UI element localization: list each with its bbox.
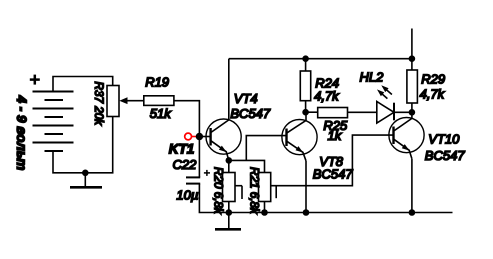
svg-text:R21 6,8k: R21 6,8k	[247, 167, 260, 215]
junction battery minus node	[82, 170, 89, 177]
capacitor C22	[186, 177, 200, 183]
wire R24 top lead	[305, 59, 307, 71]
potentiometer R37 wiper arrow	[119, 97, 144, 104]
battery GB1	[33, 92, 74, 152]
resistor R21 trimmer tap bar	[275, 186, 277, 199]
svg-text:4,7k: 4,7k	[314, 88, 340, 103]
svg-text:51k: 51k	[150, 106, 172, 121]
potentiometer R37 body	[107, 86, 119, 117]
svg-text:1k: 1k	[328, 128, 343, 143]
wire VT8 emitter down to rail	[305, 161, 307, 213]
svg-text:R20 6,8k: R20 6,8k	[211, 167, 224, 215]
svg-text:4,7k: 4,7k	[420, 86, 446, 101]
transistor VT4	[206, 119, 241, 160]
wire VT4 emitter node to R21 top	[229, 160, 265, 172]
wire R37 bottom to battery minus	[53, 117, 113, 173]
svg-text:R37 20k: R37 20k	[92, 82, 105, 127]
LED HL2 emission arrows	[377, 85, 392, 98]
wire KT1 to VT4 base	[199, 136, 210, 138]
wire VT4 collector to top rail	[228, 59, 230, 120]
svg-text:BC547: BC547	[230, 106, 271, 121]
resistor R19 body	[144, 96, 174, 106]
wire KT1 down to C22	[198, 137, 200, 178]
junction top rail / R29	[409, 55, 416, 62]
capacitor C22 polarity plus	[204, 170, 210, 176]
wire R20 bottom to rail	[228, 202, 230, 213]
wire node to R25 left	[306, 111, 318, 113]
junction R21 / ground rail	[261, 209, 268, 216]
transistor VT8	[282, 120, 317, 161]
svg-text:R19: R19	[145, 75, 169, 90]
junction KT1 node	[196, 133, 203, 140]
resistor R20 trimmer tap	[235, 186, 242, 199]
wire VT4 emitter node to R20 top	[228, 160, 230, 172]
svg-text:HL2: HL2	[360, 70, 385, 85]
svg-text:4 - 9 вольт: 4 - 9 вольт	[14, 95, 29, 171]
wire R19 right to KT1 junction	[174, 101, 200, 137]
power stub top right	[411, 29, 413, 59]
junction top rail / R24	[302, 55, 309, 62]
resistor R20 body	[223, 173, 236, 202]
resistor R25 body	[318, 108, 348, 118]
ground symbol (battery)	[70, 173, 102, 188]
wire C22 bottom to ground rail	[199, 184, 452, 213]
junction LED cathode / R29 / VT10 collector	[409, 109, 416, 116]
junction R20 / ground rail	[226, 209, 233, 216]
resistor R29 body	[407, 70, 418, 103]
wire R29 bottom lead	[411, 103, 413, 112]
resistor R21 body	[259, 173, 271, 202]
junction VT10 emitter / ground rail	[409, 209, 416, 216]
transistor VT10	[389, 118, 424, 159]
ground symbol (rail)	[215, 213, 241, 230]
wire VT10 collector up to node	[411, 112, 413, 118]
wire R29 top lead	[411, 59, 413, 70]
wire VT10 emitter down to rail	[411, 159, 413, 213]
wire top rail	[229, 58, 412, 60]
svg-text:VT4: VT4	[234, 91, 258, 106]
svg-text:R29: R29	[421, 72, 445, 87]
wire R24 bottom lead	[305, 101, 307, 113]
svg-text:VT10: VT10	[428, 131, 460, 146]
junction R24/R25/VT8 collector	[302, 109, 309, 116]
svg-text:C22: C22	[173, 157, 198, 172]
junction VT8 emitter / ground rail	[303, 209, 310, 216]
resistor R24 body	[300, 71, 310, 101]
node KT1 terminal (red)	[185, 133, 197, 140]
wire R21 bottom to rail	[264, 202, 266, 213]
battery GB1 plus sign	[30, 75, 40, 85]
svg-text:BC547: BC547	[425, 148, 466, 163]
LED HL2	[377, 102, 394, 124]
svg-text:KT1: KT1	[169, 142, 195, 157]
svg-text:BC547: BC547	[313, 167, 354, 182]
wire R21 tap to VT10 base	[271, 135, 394, 186]
wire VT8 collector up to R24/R25 node	[305, 112, 307, 120]
wire R25 right to LED anode	[348, 111, 377, 113]
junction VT4 emitter node	[226, 157, 233, 164]
wire battery plus to R37 top	[53, 77, 113, 92]
wire to VT8 base	[246, 136, 286, 161]
wire LED cathode to VT10 collector node	[394, 111, 412, 113]
svg-text:10µ: 10µ	[176, 188, 198, 203]
